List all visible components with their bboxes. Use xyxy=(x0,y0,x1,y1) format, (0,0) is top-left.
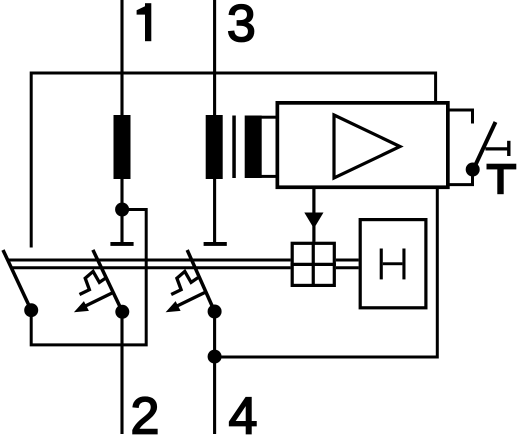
pole 1 switch lever xyxy=(93,250,123,312)
pole 1 pivot node xyxy=(115,305,129,319)
label H xyxy=(380,249,383,280)
test push-button plate xyxy=(507,141,510,156)
wire: test-circuit bypass to conductor 1 xyxy=(31,210,146,345)
mechanical linkage lower line xyxy=(11,266,291,269)
wire: secondary winding bottom lead xyxy=(262,175,278,178)
wire: amplifier output to trip coil xyxy=(312,189,315,242)
amplifier box U1 xyxy=(277,103,448,187)
pole 2 trip actuator symbol (square-wave latch + release arrow) xyxy=(171,271,206,307)
pole 2 fixed contact bar xyxy=(204,242,227,246)
test push-button actuator link xyxy=(485,147,508,150)
wire: pole 1 outgoing conductor (terminal 2) xyxy=(120,312,123,434)
wire: pole 2 outgoing conductor (terminal 4) xyxy=(213,312,216,435)
test button label T xyxy=(487,164,517,170)
wire: top bus with left branch and right drop to amplifier xyxy=(31,73,435,248)
test switch pivot node xyxy=(466,163,480,177)
current-transformer primary winding W2 (on conductor 3) xyxy=(206,115,223,179)
svg-text:2: 2 xyxy=(130,387,159,438)
current-transformer secondary winding xyxy=(245,116,262,179)
latching mechanism box H xyxy=(360,220,426,308)
wire: amplifier output to test contact (top) xyxy=(448,110,473,124)
current-transformer primary winding W1 (on conductor 1) xyxy=(114,115,131,179)
svg-text:3: 3 xyxy=(227,0,256,53)
wire: pole 1 incoming conductor (terminal 1) xyxy=(120,0,123,244)
test switch lever xyxy=(475,122,496,167)
pole 1 trip actuator symbol (square-wave latch + release arrow) xyxy=(80,271,115,307)
terminal label 1 xyxy=(137,3,152,41)
trip coil / release solenoid (crossed square) xyxy=(292,243,334,285)
amplifier triangle symbol xyxy=(334,115,400,178)
test-circuit pivot node xyxy=(24,303,38,317)
svg-text:4: 4 xyxy=(229,387,258,438)
junction node on conductor 1 xyxy=(115,203,129,217)
current-transformer core xyxy=(232,116,236,179)
wire: secondary winding top lead xyxy=(262,116,278,119)
mechanical linkage to H box upper xyxy=(336,259,359,262)
wire: right return conductor and bottom bus xyxy=(215,189,438,357)
junction node on conductor 4 xyxy=(208,350,222,364)
pole 2 pivot node xyxy=(208,305,222,319)
pole 2 switch lever xyxy=(187,250,214,312)
test-circuit switch lever (left) xyxy=(3,250,31,310)
mechanical linkage to H box lower xyxy=(336,266,359,269)
wire: test contact return to amplifier (bottom) xyxy=(448,170,473,185)
arrowhead into trip coil xyxy=(304,213,323,229)
mechanical linkage upper line xyxy=(8,259,291,262)
wire: pole 2 incoming conductor (terminal 3) xyxy=(213,0,216,244)
pole 1 fixed contact bar xyxy=(110,242,133,246)
